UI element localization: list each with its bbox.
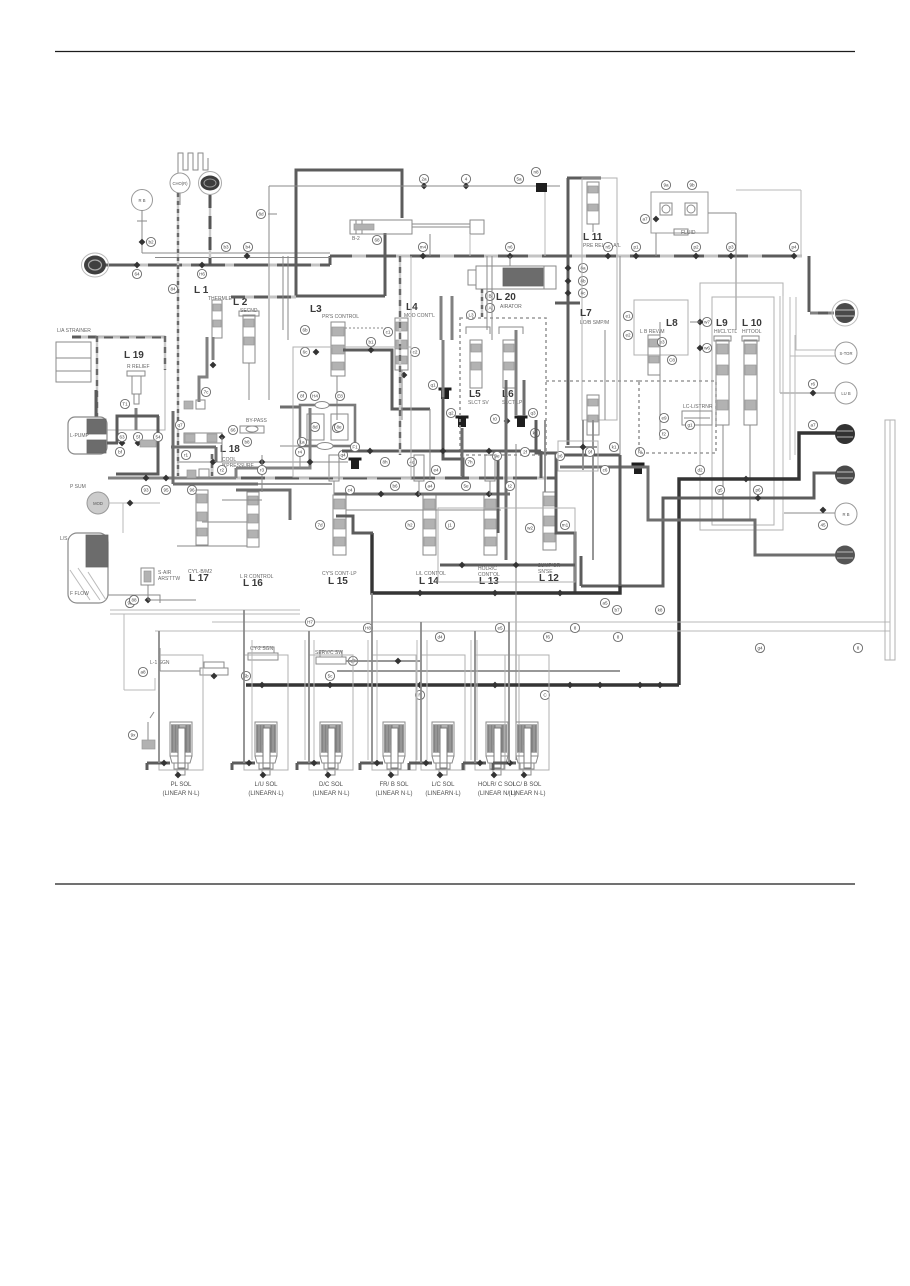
- svg-text:PRE RELIEF A/L: PRE RELIEF A/L: [583, 243, 621, 249]
- valve L5 spool: [470, 340, 482, 388]
- pins LC: [659, 413, 668, 422]
- svg-text:8d: 8d: [312, 425, 318, 430]
- svg-text:g5: g5: [717, 488, 723, 493]
- svg-text:L 18: L 18: [220, 444, 240, 455]
- pin e4: [431, 465, 440, 474]
- valve L18 spool H: [184, 433, 222, 443]
- wire sgn link: [160, 670, 200, 672]
- svg-text:k8: k8: [658, 608, 663, 613]
- wire checkered L19 right: [164, 336, 166, 370]
- svg-text:MOD: MOD: [93, 501, 103, 506]
- svg-text:m1: m1: [562, 523, 569, 528]
- wire checkered vertical (lube): [177, 193, 179, 476]
- svg-text:L 2: L 2: [233, 297, 248, 308]
- svg-text:L 10: L 10: [742, 318, 762, 329]
- reg pins: [297, 391, 306, 400]
- valve L1 spool: [212, 300, 222, 338]
- pin on L3 wire: [366, 337, 375, 346]
- wire main-line jog: [329, 256, 332, 265]
- fluid label box: [674, 229, 688, 235]
- svg-text:8e: 8e: [336, 425, 342, 430]
- svg-text:93: 93: [143, 488, 149, 493]
- sub-valve above L15: [329, 455, 339, 481]
- wire L5 vertical: [442, 340, 445, 457]
- wire from R/B down: [141, 210, 143, 253]
- terminal REV (dark): [835, 424, 855, 444]
- svg-text:t0: t0: [493, 417, 497, 422]
- box around HOLR/ C SOL: [475, 655, 519, 770]
- wire feed L/U SOL: [232, 762, 255, 765]
- svg-text:L 11: L 11: [583, 232, 603, 243]
- svg-text:LC-L/STRNR: LC-L/STRNR: [683, 404, 713, 410]
- pin e6: [555, 451, 564, 460]
- wire thick web 3: [173, 483, 258, 486]
- wire converter-return vertical (dashed): [209, 195, 211, 265]
- wire L12 drop to HI/C: [580, 556, 583, 586]
- wire web K: [619, 256, 621, 455]
- wire y447 gray: [171, 446, 216, 449]
- pin 2f: [520, 447, 529, 456]
- pin on servo drop: [372, 235, 381, 244]
- svg-text:(LINEAR N·L): (LINEAR N·L): [312, 791, 349, 797]
- wire x173 gray vertical: [172, 411, 175, 484]
- circle CHO (cooler out): [170, 173, 190, 193]
- node main m4: [420, 253, 427, 260]
- svg-text:6c: 6c: [303, 350, 309, 355]
- reg feed left: [280, 406, 300, 409]
- wire vertical x411: [410, 318, 412, 480]
- box L8 outer: [634, 300, 688, 355]
- pin 9f: [585, 447, 594, 456]
- svg-text:p2: p2: [693, 245, 699, 250]
- svg-text:j1: j1: [447, 523, 452, 528]
- svg-text:96: 96: [189, 488, 195, 493]
- wire thin from CHO bottom: [179, 193, 181, 205]
- black inline filter: [536, 183, 547, 192]
- wire check box link: [708, 212, 736, 214]
- wire thick pair left: [440, 296, 443, 340]
- pump check body: [140, 440, 156, 447]
- svg-text:t2: t2: [508, 484, 512, 489]
- wire web N: [523, 380, 526, 416]
- wire vertical x400 checkered: [399, 256, 401, 455]
- svg-text:8c: 8c: [581, 291, 587, 296]
- svg-text:8d: 8d: [258, 212, 264, 217]
- svg-text:k1: k1: [612, 445, 617, 450]
- wire web F: [372, 533, 620, 593]
- svg-text:FLUID: FLUID: [681, 230, 696, 236]
- svg-text:n5: n5: [605, 245, 611, 250]
- svg-text:(LINEAR N·L): (LINEAR N·L): [508, 791, 545, 797]
- svg-text:L/S: L/S: [60, 536, 68, 542]
- valve L6 spool: [503, 340, 515, 388]
- wire serv link: [346, 660, 420, 662]
- svg-text:4: 4: [465, 177, 468, 182]
- wire pump feed vertical: [95, 390, 98, 417]
- svg-text:SLCT SV: SLCT SV: [468, 400, 489, 406]
- wire v262: [261, 455, 263, 492]
- circle aux (x846 y393): [835, 382, 857, 404]
- wire solenoid feed vertical thin: [251, 640, 253, 760]
- svg-text:8: 8: [574, 626, 577, 631]
- svg-text:b3: b3: [223, 245, 229, 250]
- pin k8: [655, 605, 664, 614]
- wire mod drop: [147, 585, 149, 600]
- svg-text:f6: f6: [546, 635, 550, 640]
- svg-text:63: 63: [119, 435, 125, 440]
- box L11/L7 enclosure: [582, 178, 617, 420]
- svg-text:H7: H7: [307, 620, 313, 625]
- L17 small rect: [187, 470, 196, 478]
- wire solenoid feed vertical thin: [367, 640, 369, 760]
- svg-text:L/A STRAINER: L/A STRAINER: [57, 328, 91, 334]
- wire top thin rail: [269, 185, 560, 187]
- wire x430 upper: [429, 234, 431, 256]
- wire loop bottom left ext: [231, 296, 296, 299]
- L3 dotted link: [345, 327, 387, 329]
- svg-text:PL SOL: PL SOL: [171, 782, 192, 788]
- solenoid LC/ B SOL: [516, 722, 538, 756]
- strainer body upper: [56, 342, 91, 358]
- wire vertical x593: [592, 420, 594, 560]
- svg-text:AIRATOR: AIRATOR: [500, 304, 522, 310]
- lubrication terminal (dark): [201, 176, 220, 191]
- pins L9L10 top: [702, 317, 711, 326]
- check accumulator 4: [349, 458, 362, 461]
- svg-text:BY-PASS: BY-PASS: [246, 418, 268, 424]
- wire solenoid feed vertical: [308, 631, 310, 763]
- pin a5: [600, 598, 609, 607]
- wire L11 top feed: [567, 177, 601, 180]
- svg-text:b1: b1: [368, 340, 374, 345]
- svg-text:p4: p4: [791, 245, 797, 250]
- svg-text:r1: r1: [184, 453, 189, 458]
- wire web M: [505, 380, 508, 560]
- converter terminal: [832, 300, 858, 326]
- wire to aux circle: [780, 392, 835, 394]
- solenoid PL SOL: [170, 722, 192, 756]
- pin c6: [600, 465, 609, 474]
- wire feed L/C SOL: [409, 762, 432, 765]
- wire top rail drop: [268, 186, 270, 400]
- wire solenoid feed vertical: [508, 622, 510, 763]
- svg-text:q7: q7: [177, 423, 183, 428]
- wire y565 dark: [440, 564, 575, 567]
- svg-text:d2: d2: [697, 468, 703, 473]
- wire feed FR/ B SOL: [360, 762, 383, 765]
- svg-text:d4: d4: [437, 635, 443, 640]
- svg-text:PR'S CONTROL: PR'S CONTROL: [322, 314, 359, 320]
- svg-text:T1: T1: [122, 402, 128, 407]
- LC strainer box: [682, 411, 712, 425]
- wire black bottom: [246, 683, 679, 686]
- valve L4 spool: [395, 318, 408, 370]
- svg-text:(LINEARN·L): (LINEARN·L): [248, 791, 283, 797]
- svg-text:B: B: [488, 294, 491, 299]
- svg-text:q4: q4: [340, 453, 346, 458]
- wire web E: [334, 493, 510, 496]
- reg inner cells: [307, 414, 324, 440]
- svg-text:R B: R B: [843, 512, 850, 517]
- svg-text:c1: c1: [386, 330, 391, 335]
- wire faint right verticals: [782, 296, 784, 513]
- svg-text:E8: E8: [337, 394, 343, 399]
- svg-text:L7: L7: [580, 308, 592, 319]
- svg-text:HOLR/ C SOL: HOLR/ C SOL: [478, 782, 517, 788]
- wire L6 vertical: [515, 330, 518, 415]
- node main p1: [633, 253, 640, 260]
- box mid enclosure 2: [438, 508, 575, 582]
- valve L7 spool: [587, 395, 599, 435]
- svg-text:e5: e5: [497, 626, 503, 631]
- valve L8 spool: [648, 335, 660, 375]
- pump band 2: [87, 440, 106, 453]
- valve L10 spool: [744, 340, 757, 425]
- nodes y685 extra: [597, 682, 604, 689]
- wire loop bottom: [296, 295, 385, 298]
- pin 4d: [407, 457, 416, 466]
- wire twin thin to S-TOR: [796, 297, 836, 350]
- wire L4 drop: [401, 370, 403, 420]
- svg-text:6b: 6b: [302, 328, 308, 333]
- valve L16 spool: [247, 492, 259, 547]
- pin h2: [405, 520, 414, 529]
- wire x470 drop: [469, 234, 471, 256]
- svg-text:c2: c2: [413, 350, 418, 355]
- box around D/C SOL: [309, 655, 353, 770]
- sol modulator box: [141, 568, 154, 585]
- wire servo drop: [384, 233, 387, 296]
- svg-text:a8: a8: [140, 670, 146, 675]
- svg-text:7c: 7c: [204, 390, 210, 395]
- svg-text:L4: L4: [406, 302, 418, 313]
- wire secondary dashed line (y476): [212, 477, 556, 480]
- dashed link to LC box: [546, 380, 639, 382]
- box around LC/ B SOL: [505, 655, 549, 770]
- svg-text:CONT'OL: CONT'OL: [478, 572, 500, 578]
- reg bottom pin: [297, 437, 306, 446]
- box around PL SOL: [159, 655, 203, 770]
- wire web B2: [540, 451, 543, 478]
- wire web I: [544, 420, 546, 492]
- wire web L: [659, 322, 661, 440]
- L1-L2 cluster thick wires: [199, 337, 207, 402]
- pin h1: [168, 284, 177, 293]
- wire to converter (thick): [810, 312, 834, 315]
- svg-text:MOD CONT'L: MOD CONT'L: [404, 313, 435, 319]
- wire v300: [299, 437, 301, 468]
- valve L14 spool: [423, 495, 436, 555]
- wire web G: [336, 516, 373, 533]
- pin f4: [635, 447, 644, 456]
- wire web D: [461, 428, 464, 476]
- strainer suction body: [68, 533, 108, 603]
- svg-text:L/C SOL: L/C SOL: [431, 782, 455, 788]
- wire right of L10 extra: [789, 330, 791, 460]
- pin L3a: [466, 310, 475, 319]
- svg-text:8b: 8b: [580, 279, 586, 284]
- svg-text:HI/CL'CTL: HI/CL'CTL: [714, 329, 737, 335]
- svg-text:L-PUMP: L-PUMP: [70, 433, 90, 439]
- pin bf: [115, 447, 124, 456]
- wire web J2: [558, 454, 620, 457]
- pin 8h: [380, 457, 389, 466]
- svg-text:L3: L3: [468, 313, 474, 318]
- L20 dark spool: [503, 268, 543, 286]
- wire strainer to pump (thick): [108, 477, 236, 480]
- reg ellipse: [315, 402, 329, 409]
- pin b3: [221, 242, 230, 251]
- svg-text:n8: n8: [533, 170, 539, 175]
- svg-text:e2: e2: [625, 333, 631, 338]
- svg-text:L B REV/M: L B REV/M: [640, 329, 665, 335]
- pin b7: [612, 605, 621, 614]
- pin left of box: [640, 214, 649, 223]
- svg-text:L5: L5: [469, 389, 481, 400]
- svg-text:r2: r2: [220, 468, 225, 473]
- cluster small parts: [184, 401, 193, 409]
- svg-text:CHO(R): CHO(R): [172, 181, 188, 186]
- pin w2: [525, 523, 534, 532]
- svg-text:b7: b7: [614, 608, 620, 613]
- servo B-2 body: [350, 220, 412, 234]
- node main p2: [693, 253, 700, 260]
- svg-text:54: 54: [155, 435, 161, 440]
- svg-text:a5: a5: [602, 601, 608, 606]
- wire L9L10 mid: [722, 425, 724, 520]
- dashed enclosure L5L6: [460, 318, 546, 455]
- svg-text:h2: h2: [407, 523, 413, 528]
- wire web E2: [346, 509, 501, 511]
- gauge MOD circle: [87, 492, 109, 514]
- svg-text:(LINEAR N·L): (LINEAR N·L): [375, 791, 412, 797]
- wire suction elbow: [235, 468, 238, 478]
- svg-text:r6: r6: [811, 382, 816, 387]
- box L9L10 inner: [712, 297, 774, 525]
- svg-text:e4: e4: [433, 468, 439, 473]
- svg-text:p6: p6: [755, 488, 761, 493]
- svg-text:p1: p1: [633, 245, 639, 250]
- check accumulator 3: [515, 416, 528, 419]
- box regulator: [300, 405, 355, 446]
- valve L13 spool: [484, 495, 497, 555]
- wire checkered L19 left: [96, 336, 98, 430]
- circle S-TOR: [835, 342, 857, 364]
- valve L3 spool: [331, 322, 345, 376]
- pin 7d: [315, 520, 324, 529]
- box around FR/ B SOL: [372, 655, 416, 770]
- svg-text:SN'SE: SN'SE: [538, 569, 553, 575]
- wire L20 drop checkered: [481, 289, 483, 317]
- pin 9e: [492, 451, 501, 460]
- wire solenoid feed vertical thin: [426, 640, 428, 760]
- svg-text:LC/ B SOL: LC/ B SOL: [513, 782, 542, 788]
- wire web J: [497, 459, 500, 533]
- svg-text:n6: n6: [507, 245, 513, 250]
- pin 5e: [461, 481, 470, 490]
- pump body: [68, 417, 107, 454]
- node arrow on R/B line: [139, 239, 146, 246]
- check accumulator 2: [456, 416, 469, 419]
- wire strainer drop: [122, 503, 124, 533]
- wire feed HOLR/ C SOL: [463, 762, 486, 765]
- strainer dashes top: [72, 336, 165, 339]
- wire gauge link: [109, 502, 160, 504]
- wire solenoid feed vertical: [243, 610, 245, 763]
- node main p3: [728, 253, 735, 260]
- circle R/B top-left: [132, 190, 153, 211]
- svg-text:L 15: L 15: [328, 576, 348, 587]
- wire left foot: [124, 678, 155, 690]
- svg-text:L 20: L 20: [496, 292, 516, 303]
- drain symbol: [147, 722, 149, 740]
- svg-text:ARS'TTW: ARS'TTW: [158, 576, 180, 582]
- pin t2: [505, 481, 514, 490]
- svg-text:L/U SOL: L/U SOL: [254, 782, 278, 788]
- svg-text:c4: c4: [348, 488, 353, 493]
- svg-text:b8: b8: [244, 440, 250, 445]
- wire solenoid feed vertical thin: [304, 640, 306, 760]
- wire vertical x283: [282, 256, 284, 330]
- svg-text:8: 8: [617, 635, 620, 640]
- node main p4: [791, 253, 798, 260]
- strainer suction dark band: [86, 535, 108, 567]
- pin k1: [609, 442, 618, 451]
- box fluid check: [651, 192, 708, 233]
- wire thick web 1: [236, 430, 310, 468]
- svg-text:F FLOW: F FLOW: [70, 591, 89, 597]
- wire L7 elbow: [555, 302, 580, 305]
- svg-text:FR/ B SOL: FR/ B SOL: [379, 782, 409, 788]
- svg-text:95: 95: [163, 488, 169, 493]
- svg-text:5e: 5e: [463, 484, 469, 489]
- wire vertical x430: [429, 409, 431, 480]
- svg-text:g1: g1: [687, 423, 693, 428]
- wire feed LC/ B SOL: [493, 762, 516, 765]
- wire check box drop: [735, 233, 737, 330]
- wire line-pressure vertical to converter feed: [808, 256, 811, 312]
- wire HI/C feed (dark gray): [581, 473, 836, 586]
- svg-text:w2: w2: [527, 526, 533, 531]
- node main n6: [507, 253, 514, 260]
- valve L9 spool: [716, 340, 729, 425]
- box around L/C SOL: [421, 655, 465, 770]
- svg-text:LU B: LU B: [841, 391, 851, 396]
- wire feed PL SOL: [147, 762, 170, 765]
- pin r1: [181, 450, 190, 459]
- svg-text:66: 66: [230, 428, 236, 433]
- wire solenoid feed vertical: [474, 631, 476, 763]
- wire thick pair right: [451, 296, 454, 340]
- nodes y494: [378, 491, 385, 498]
- solenoid D/C SOL: [320, 722, 342, 756]
- svg-text:S-TOR: S-TOR: [840, 351, 853, 356]
- valve L15 spool: [333, 495, 346, 555]
- wire gray above black: [337, 670, 620, 672]
- pin 7h: [465, 457, 474, 466]
- wire pump out: [107, 442, 118, 445]
- check valve 2: [685, 203, 697, 215]
- pin on HIC wire: [753, 485, 762, 494]
- nodes black bottom: [259, 682, 266, 689]
- svg-text:8h: 8h: [382, 460, 388, 465]
- pins rail: [305, 617, 314, 626]
- nodes on suction line: [143, 475, 150, 482]
- pin b4: [243, 242, 252, 251]
- wire to main from box: [655, 233, 657, 256]
- wire web H: [515, 444, 517, 760]
- svg-text:CY'S CONT·LP: CY'S CONT·LP: [322, 571, 357, 577]
